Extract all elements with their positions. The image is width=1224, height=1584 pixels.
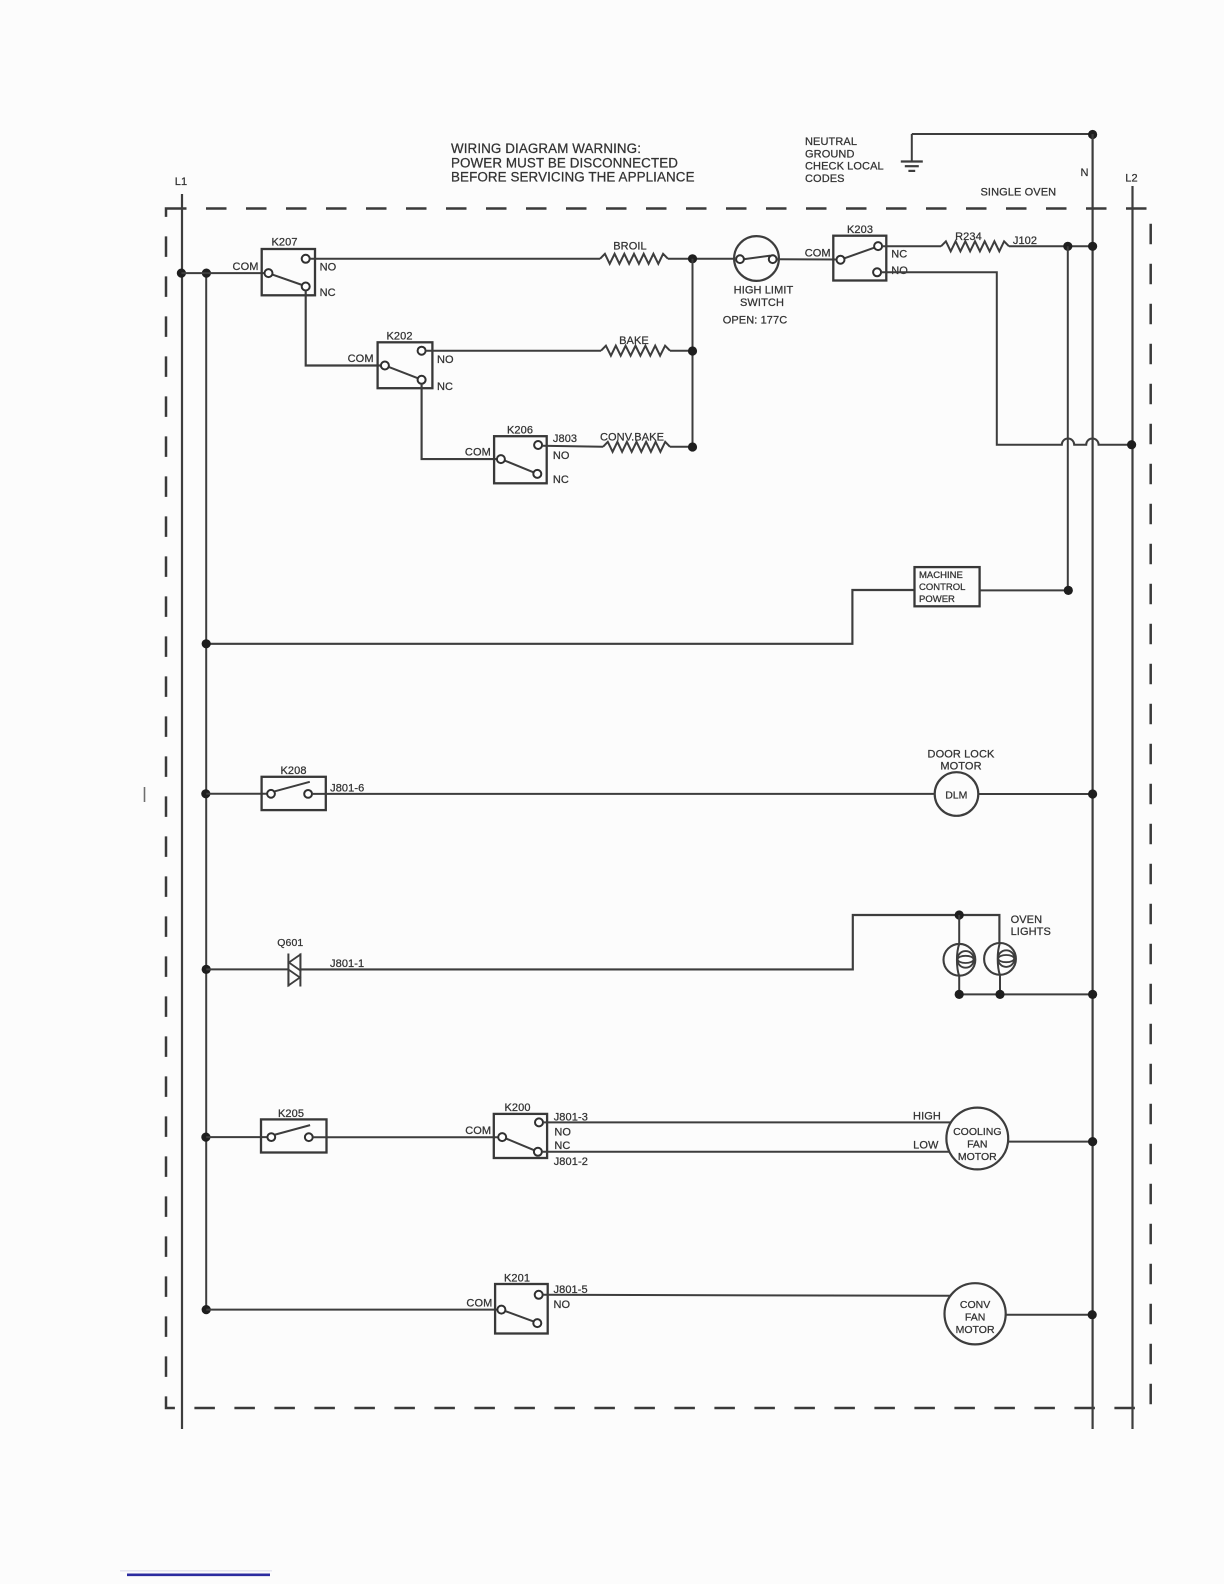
label K200 J801-2 xyxy=(554,1156,588,1168)
wire lamp2 drop bottom xyxy=(999,975,1001,995)
wire lamp1 drop bottom xyxy=(958,976,960,995)
svg-text:POWER MUST BE DISCONNECTED: POWER MUST BE DISCONNECTED xyxy=(451,155,678,170)
blue underline echo xyxy=(120,1570,272,1572)
wire K202 NC to K206 COM xyxy=(422,384,501,459)
svg-text:CHECK LOCAL: CHECK LOCAL xyxy=(805,161,884,173)
dashed enclosure border (single oven) xyxy=(166,209,1151,1409)
svg-text:CONV.BAKE: CONV.BAKE xyxy=(600,431,664,443)
wire ground to N xyxy=(912,133,1093,135)
svg-text:NO: NO xyxy=(554,1299,571,1311)
wire K201 NO to conv fan xyxy=(543,1295,951,1296)
relay K207 xyxy=(262,249,315,295)
svg-text:COM: COM xyxy=(465,447,491,459)
label K202 xyxy=(386,330,412,342)
label K206 NO xyxy=(553,450,570,462)
label K207 NO xyxy=(320,261,337,273)
node L2 connect xyxy=(1127,440,1136,449)
wire MCP to J102 drop xyxy=(980,589,1069,591)
oven light lamp 1 xyxy=(944,944,976,976)
label R234 xyxy=(955,231,982,243)
wire J102 drop vertical xyxy=(1067,246,1069,590)
label K207 xyxy=(271,237,297,249)
wire lights bottom to N xyxy=(959,993,1092,995)
svg-text:L1: L1 xyxy=(175,176,187,188)
label SINGLE OVEN xyxy=(981,187,1057,199)
rail L2 xyxy=(1131,186,1133,1429)
label J801-1 xyxy=(330,958,364,970)
node heat-bus CONV.BAKE xyxy=(688,442,697,451)
stray scan mark xyxy=(144,787,146,802)
wire subbus to K201 xyxy=(206,1309,501,1311)
svg-text:NEUTRAL: NEUTRAL xyxy=(805,136,857,148)
relay K208 xyxy=(262,777,326,810)
svg-text:MACHINE: MACHINE xyxy=(919,570,963,581)
relay K201 xyxy=(495,1284,548,1334)
node J102 drop xyxy=(1063,242,1072,251)
svg-text:K205: K205 xyxy=(278,1108,304,1120)
triac Q601 xyxy=(288,954,300,987)
svg-text:K200: K200 xyxy=(504,1102,530,1114)
node subbus-K205 xyxy=(201,1133,210,1142)
svg-text:SINGLE OVEN: SINGLE OVEN xyxy=(981,187,1057,199)
rail L1 xyxy=(181,194,183,1429)
node subbus-MCP xyxy=(202,639,211,648)
svg-text:COM: COM xyxy=(465,1125,491,1137)
wire subbus to K208 xyxy=(206,793,271,795)
label K201 xyxy=(504,1272,530,1284)
relay K206 xyxy=(494,436,547,483)
label K206 COM xyxy=(465,447,491,459)
svg-text:LOW: LOW xyxy=(913,1139,939,1151)
svg-text:MOTOR: MOTOR xyxy=(958,1151,997,1163)
svg-text:NO: NO xyxy=(891,265,908,277)
svg-text:K207: K207 xyxy=(271,237,297,249)
svg-text:SWITCH: SWITCH xyxy=(740,297,784,309)
svg-text:NO: NO xyxy=(320,261,337,273)
node lights1 xyxy=(955,990,964,999)
label BAKE xyxy=(619,335,649,347)
svg-text:WIRING DIAGRAM WARNING:: WIRING DIAGRAM WARNING: xyxy=(451,141,641,156)
label K203 COM xyxy=(805,247,831,259)
svg-text:NO: NO xyxy=(554,1126,571,1138)
svg-text:COOLING: COOLING xyxy=(953,1126,1001,1138)
svg-text:K203: K203 xyxy=(847,224,873,236)
wire conv fan to N xyxy=(1006,1314,1093,1316)
node subbus-Q601 xyxy=(202,965,211,974)
label CONV.BAKE xyxy=(600,431,664,443)
svg-text:GROUND: GROUND xyxy=(805,148,855,160)
svg-text:COM: COM xyxy=(466,1297,492,1309)
svg-text:DOOR LOCK: DOOR LOCK xyxy=(928,748,995,760)
label K207 COM xyxy=(233,261,259,273)
label K207 NC xyxy=(320,287,336,299)
wire high limit to K203 COM xyxy=(777,258,841,260)
node subbus-K208 xyxy=(201,789,210,798)
label K203 NO xyxy=(891,265,908,277)
svg-text:J801-1: J801-1 xyxy=(330,958,364,970)
label L1 xyxy=(175,176,187,188)
label K200 J801-3 xyxy=(554,1112,588,1124)
svg-text:OPEN: 177C: OPEN: 177C xyxy=(723,315,788,327)
resistor CONV.BAKE xyxy=(603,442,670,452)
svg-text:MOTOR: MOTOR xyxy=(956,1324,995,1336)
relay K205 xyxy=(261,1119,327,1152)
wire DLM to N xyxy=(978,793,1092,795)
label K201 COM xyxy=(466,1297,492,1309)
node convfan-N xyxy=(1088,1310,1097,1319)
wire K203 NO to L2 xyxy=(881,272,1132,444)
svg-text:J803: J803 xyxy=(553,433,577,445)
svg-text:CODES: CODES xyxy=(805,173,845,185)
svg-text:NO: NO xyxy=(437,354,454,366)
svg-text:NC: NC xyxy=(554,1140,570,1152)
svg-text:COM: COM xyxy=(805,247,831,259)
label K206 NC xyxy=(553,474,569,486)
cooling fan motor xyxy=(946,1108,1008,1170)
svg-text:R234: R234 xyxy=(955,231,982,243)
node subbus-K207 xyxy=(202,269,211,278)
label HIGH LIMIT SWITCH xyxy=(734,285,794,309)
svg-text:DLM: DLM xyxy=(945,790,967,802)
wire K200 NO to fan HIGH xyxy=(543,1121,951,1123)
node subbus-K201 xyxy=(202,1305,211,1314)
svg-text:J801-2: J801-2 xyxy=(554,1156,588,1168)
wire lamp1 drop top xyxy=(958,915,960,944)
warning text block xyxy=(451,141,695,185)
svg-text:BAKE: BAKE xyxy=(619,335,649,347)
label K206 J803 xyxy=(553,433,577,445)
svg-text:NO: NO xyxy=(553,450,570,462)
resistor R234 xyxy=(941,241,1009,251)
svg-text:L2: L2 xyxy=(1125,173,1137,185)
node DLM-N xyxy=(1088,789,1097,798)
svg-text:FAN: FAN xyxy=(967,1138,987,1150)
wire BROIL to high limit switch xyxy=(668,258,734,260)
label K202 COM xyxy=(348,353,374,365)
node lights2 xyxy=(995,990,1004,999)
wire K200 NC to fan LOW xyxy=(542,1151,950,1153)
svg-text:NC: NC xyxy=(891,249,907,261)
label DOOR LOCK MOTOR xyxy=(928,748,995,772)
svg-text:NC: NC xyxy=(320,287,336,299)
relay K203 xyxy=(833,236,886,281)
node J102-N xyxy=(1088,242,1097,251)
label K203 NC xyxy=(891,249,907,261)
label OPEN 177C xyxy=(723,315,788,327)
label N xyxy=(1080,167,1088,179)
wire R234 to rail N (J102) xyxy=(1009,245,1093,247)
svg-text:COM: COM xyxy=(348,353,374,365)
neutral ground note xyxy=(805,136,884,185)
label J102 xyxy=(1013,235,1037,247)
label K200 NC xyxy=(554,1140,570,1152)
svg-text:HIGH LIMIT: HIGH LIMIT xyxy=(734,285,794,297)
label K203 xyxy=(847,224,873,236)
svg-text:FAN: FAN xyxy=(965,1311,985,1323)
label LOW xyxy=(913,1139,939,1151)
svg-text:POWER: POWER xyxy=(919,594,955,605)
wire subbus to MCP xyxy=(206,590,914,644)
label K205 xyxy=(278,1108,304,1120)
label HIGH xyxy=(913,1111,941,1123)
wire K203 NC to R234 xyxy=(882,245,941,247)
label K208 xyxy=(280,765,306,777)
wire K207 NC to K202 COM xyxy=(306,291,385,366)
wire cooling fan to N xyxy=(1008,1141,1092,1143)
svg-text:Q601: Q601 xyxy=(277,937,303,949)
conv fan motor xyxy=(945,1283,1006,1344)
wire L1 to K207 COM xyxy=(181,272,268,274)
wire CONV.BAKE to heat bus xyxy=(670,446,693,448)
svg-text:OVEN: OVEN xyxy=(1011,914,1043,926)
label K206 xyxy=(507,425,533,437)
node heat-bus BAKE xyxy=(688,346,697,355)
node coolingfan-N xyxy=(1088,1137,1097,1146)
label K208 J801-6 xyxy=(330,782,364,794)
label L2 xyxy=(1125,173,1137,185)
svg-text:K202: K202 xyxy=(386,330,412,342)
wire K202 NO to BAKE xyxy=(426,350,602,352)
node MCP-J102 xyxy=(1064,586,1073,595)
label OVEN LIGHTS xyxy=(1011,914,1051,938)
node N-top xyxy=(1088,130,1097,139)
label K202 NC xyxy=(437,381,453,393)
label K200 xyxy=(504,1102,530,1114)
node L1-K207 xyxy=(177,269,186,278)
relay K200 xyxy=(494,1114,547,1158)
svg-text:HIGH: HIGH xyxy=(913,1111,941,1123)
wire K205 to K200 COM xyxy=(313,1136,503,1138)
node lamp1 top xyxy=(955,910,964,919)
svg-text:K208: K208 xyxy=(280,765,306,777)
node lights-N xyxy=(1088,990,1097,999)
wire subbus to K205 xyxy=(206,1136,271,1138)
svg-text:NC: NC xyxy=(437,381,453,393)
wire subbus to Q601 xyxy=(206,968,288,970)
svg-text:J801-6: J801-6 xyxy=(330,782,364,794)
ground symbol xyxy=(901,134,923,171)
svg-text:NC: NC xyxy=(553,474,569,486)
svg-text:CONV: CONV xyxy=(960,1299,990,1311)
svg-text:J102: J102 xyxy=(1013,235,1037,247)
machine control power box xyxy=(915,567,980,606)
label K201 J801-5 xyxy=(554,1284,588,1296)
wire K208 to DLM xyxy=(312,793,935,795)
wire BAKE to heat bus xyxy=(670,350,693,352)
label K201 NO xyxy=(554,1299,571,1311)
label K200 COM xyxy=(465,1125,491,1137)
wire K206 NO to CONV.BAKE xyxy=(542,446,603,447)
svg-text:MOTOR: MOTOR xyxy=(940,760,981,772)
svg-text:N: N xyxy=(1080,167,1088,179)
resistor BAKE xyxy=(601,346,670,356)
door lock motor xyxy=(935,772,979,816)
relay K202 xyxy=(378,342,433,388)
svg-text:BROIL: BROIL xyxy=(613,241,647,253)
wire L1 sub-bus xyxy=(205,273,207,1310)
svg-text:BEFORE SERVICING THE APPLIANCE: BEFORE SERVICING THE APPLIANCE xyxy=(451,170,695,185)
svg-text:LIGHTS: LIGHTS xyxy=(1011,926,1051,938)
wire Q601 to lights xyxy=(300,915,999,969)
rail N xyxy=(1091,134,1093,1429)
node heat-bus BROIL xyxy=(688,254,697,263)
svg-text:K206: K206 xyxy=(507,425,533,437)
label K200 NO xyxy=(554,1126,571,1138)
wire K207 NO to BROIL xyxy=(310,258,601,260)
label BROIL xyxy=(613,241,647,253)
svg-text:COM: COM xyxy=(233,261,259,273)
high limit switch xyxy=(734,236,779,281)
svg-text:CONTROL: CONTROL xyxy=(919,582,965,593)
oven light lamp 2 xyxy=(984,943,1016,975)
wire heat bus vertical xyxy=(692,259,694,447)
svg-text:K201: K201 xyxy=(504,1272,530,1284)
label K202 NO xyxy=(437,354,454,366)
blue underline xyxy=(127,1574,270,1577)
label Q601 xyxy=(277,937,303,949)
resistor BROIL xyxy=(600,254,668,264)
